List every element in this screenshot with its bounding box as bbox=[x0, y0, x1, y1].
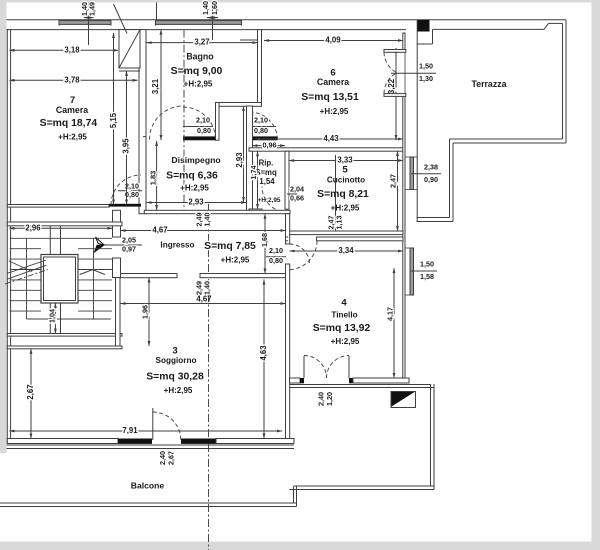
dim line bagno door bbox=[183, 126, 213, 128]
stair landing line bottom bbox=[27, 318, 111, 320]
dim 4,63 vertical bbox=[263, 280, 265, 439]
wire terrace strip outer right bbox=[452, 143, 454, 222]
door arc bagno left half bbox=[150, 106, 184, 140]
door leaf tinello right bbox=[348, 356, 350, 378]
svg-text:S=mq: S=mq bbox=[255, 168, 277, 177]
wall soggiorno bottom west bbox=[7, 439, 118, 444]
svg-text:5: 5 bbox=[342, 165, 348, 176]
svg-text:3,21: 3,21 bbox=[151, 78, 160, 94]
svg-text:+H:2,95: +H:2,95 bbox=[320, 107, 349, 116]
wall stub bagno bottom left bbox=[143, 136, 147, 138]
wall camera6-cucinotto-rip bottom band bbox=[249, 148, 403, 151]
svg-text:Soggiorno: Soggiorno bbox=[156, 356, 197, 365]
svg-text:Balcone: Balcone bbox=[131, 481, 165, 491]
wall tinello top bbox=[317, 237, 404, 241]
svg-text:1,50: 1,50 bbox=[420, 260, 434, 269]
dim 3,21 vertical bbox=[160, 30, 162, 140]
svg-text:4: 4 bbox=[341, 298, 347, 309]
svg-text:2,10: 2,10 bbox=[269, 246, 283, 255]
dim 3,78 bbox=[10, 79, 138, 81]
svg-text:S=mq 18,74: S=mq 18,74 bbox=[40, 118, 98, 129]
wire balcone inner line 2 bbox=[7, 448, 295, 450]
svg-text:1,60: 1,60 bbox=[210, 1, 219, 15]
wire terrace outer right edge bbox=[565, 20, 567, 143]
centerline bagno-disimpegno bbox=[183, 30, 185, 211]
wire terrace outer bottom bbox=[453, 142, 566, 144]
wall east camera6 upper bbox=[403, 33, 405, 50]
wall east soggiorno-tinello bbox=[286, 264, 290, 439]
dim 4,67 top bbox=[121, 230, 286, 232]
wall soggiorno top band bbox=[7, 346, 122, 349]
svg-text:3,34: 3,34 bbox=[338, 246, 354, 255]
centerline vertical main bbox=[208, 204, 210, 550]
svg-text:0,80: 0,80 bbox=[125, 190, 139, 199]
wall rip/cucinotto right upper bbox=[285, 151, 289, 209]
wall tinello bottom left stub bbox=[290, 378, 301, 383]
dim 3,27 bbox=[147, 42, 258, 44]
svg-text:2,67: 2,67 bbox=[26, 384, 35, 399]
stair handrail left bbox=[26, 238, 28, 319]
svg-text:1,83: 1,83 bbox=[148, 171, 157, 185]
elevator shaft bbox=[41, 255, 78, 304]
svg-text:7,91: 7,91 bbox=[122, 426, 138, 435]
stair direction chevron bbox=[80, 270, 105, 275]
door arc tinello left bbox=[304, 356, 327, 379]
dim line terrace door bbox=[391, 72, 436, 74]
svg-text:3,27: 3,27 bbox=[194, 38, 209, 47]
dim 3,34 bbox=[290, 250, 404, 252]
svg-text:Terrazza: Terrazza bbox=[471, 79, 506, 89]
svg-text:Ingresso: Ingresso bbox=[160, 240, 194, 249]
wire balcone top edge inner bbox=[290, 384, 431, 386]
door arc terrace upper bbox=[384, 52, 397, 72]
svg-text:0,97: 0,97 bbox=[122, 245, 136, 254]
wall threshold line terrace door bbox=[404, 50, 406, 95]
dim ext line window W2 left bbox=[156, 3, 158, 20]
svg-text:4,67: 4,67 bbox=[152, 226, 167, 235]
svg-text:1,96: 1,96 bbox=[140, 305, 149, 319]
dim 4,67 bottom bbox=[121, 303, 286, 305]
svg-text:1,04: 1,04 bbox=[47, 309, 56, 323]
left gray strip bbox=[0, 0, 7, 453]
svg-text:Bagno: Bagno bbox=[186, 51, 214, 61]
stair landing line top bbox=[10, 237, 112, 239]
svg-text:0,80: 0,80 bbox=[197, 126, 211, 135]
wall bagno jog line bbox=[240, 39, 262, 41]
dim 5,15 vertical bbox=[113, 33, 115, 205]
svg-text:1,13: 1,13 bbox=[334, 216, 343, 230]
svg-text:0,66: 0,66 bbox=[290, 193, 304, 202]
dim 1,68 vertical bbox=[264, 214, 266, 274]
svg-text:+H:2,95: +H:2,95 bbox=[331, 337, 360, 346]
svg-text:1,40: 1,40 bbox=[201, 1, 210, 15]
entrance arrow black bbox=[96, 237, 105, 245]
door arc terrace lower bbox=[384, 73, 397, 94]
pillar box bbox=[391, 392, 416, 408]
dim 1,04 vertical bbox=[54, 303, 56, 334]
svg-text:4,63: 4,63 bbox=[259, 345, 268, 361]
svg-text:2,05: 2,05 bbox=[122, 236, 136, 245]
wire terrace inner top right bbox=[549, 22, 563, 24]
stair central wall left upper bbox=[49, 226, 51, 255]
svg-text:+H:2,95: +H:2,95 bbox=[180, 184, 209, 193]
wall ingresso west lower bbox=[113, 258, 121, 278]
wire balcone step inner bbox=[293, 487, 295, 504]
svg-text:1,74: 1,74 bbox=[249, 166, 258, 180]
dim line ingresso east door bbox=[266, 256, 286, 258]
svg-text:1,58: 1,58 bbox=[420, 272, 434, 281]
dim 2,67 vertical bbox=[30, 349, 32, 439]
door leaf terrace upper bbox=[384, 50, 406, 53]
bottom gray strip bbox=[0, 542, 592, 550]
dim 1,74 vertical bbox=[257, 151, 259, 209]
jamb tinello door right bbox=[349, 378, 353, 383]
wall cucinotto bottom bbox=[289, 231, 403, 235]
svg-text:1,40: 1,40 bbox=[202, 281, 211, 295]
stair treads right flight bbox=[78, 248, 112, 250]
dim 3,95 vertical bbox=[126, 71, 128, 205]
door arc ingresso-tinello bbox=[290, 244, 310, 264]
svg-text:4,09: 4,09 bbox=[325, 36, 341, 45]
dim 2,93 horizontal bbox=[147, 202, 247, 204]
ticks window W2 dim bbox=[207, 17, 218, 19]
svg-text:3,18: 3,18 bbox=[64, 45, 80, 54]
wall stairs bottom bbox=[7, 334, 122, 337]
svg-text:2,10: 2,10 bbox=[196, 116, 210, 125]
wall disimpegno/rip vertical bbox=[247, 106, 253, 213]
dim line stairs door bbox=[104, 244, 142, 246]
top gray strip bbox=[0, 0, 600, 3]
svg-text:Camera: Camera bbox=[56, 105, 88, 115]
svg-text:S=mq 7,85: S=mq 7,85 bbox=[204, 241, 256, 252]
right gray strip bbox=[592, 0, 600, 550]
stair break diagonal bbox=[7, 265, 46, 279]
wire terrace inner bottom bbox=[450, 138, 563, 140]
door leaf terrace lower bbox=[384, 94, 406, 97]
wire terrace inner top line bbox=[433, 28, 545, 30]
wire balcone right edge outer bbox=[433, 384, 435, 490]
door arc camera6 entry bbox=[250, 112, 278, 140]
door leaf tinello left bbox=[303, 356, 305, 378]
window cucinotto east bbox=[410, 157, 414, 190]
stair central wall right upper bbox=[60, 226, 62, 255]
shaft flue camera7 bbox=[119, 30, 140, 68]
svg-text:2,38: 2,38 bbox=[424, 162, 438, 171]
wire terrace chamfer bbox=[544, 23, 549, 29]
wall camera7 bottom bbox=[7, 205, 109, 208]
svg-text:+H:2,95: +H:2,95 bbox=[184, 80, 213, 89]
wall bagno notch horizontal bbox=[216, 103, 262, 107]
wall tinello bottom right bbox=[353, 378, 409, 383]
door arc bagno right half bbox=[183, 107, 216, 140]
stair handrail right bbox=[93, 238, 95, 319]
dim line camera6 door bbox=[247, 126, 276, 128]
shaft bottom lip bbox=[119, 70, 140, 72]
svg-text:+H:2,95: +H:2,95 bbox=[58, 132, 87, 141]
door arc cucinotto-tinello bbox=[288, 241, 317, 270]
wire balcone bottom inner bbox=[0, 506, 297, 508]
svg-text:4,17: 4,17 bbox=[385, 307, 394, 321]
svg-text:2,04: 2,04 bbox=[290, 184, 304, 193]
wall black corner terrace pillar bbox=[418, 20, 430, 32]
wall soggiorno bottom east bbox=[216, 439, 294, 444]
svg-text:4,67: 4,67 bbox=[196, 295, 211, 304]
svg-text:+H:2,95: +H:2,95 bbox=[164, 386, 193, 395]
wall rip bottom left stub bbox=[249, 209, 262, 213]
window tinello east bbox=[410, 248, 414, 295]
dim 4,17 vertical bbox=[393, 268, 395, 378]
svg-text:S=mq 30,28: S=mq 30,28 bbox=[146, 371, 204, 382]
dim 4,09 bbox=[264, 40, 403, 42]
door leaf soggiorno bbox=[152, 408, 154, 440]
wall black bar bagno door bbox=[183, 136, 216, 140]
wall ingresso bottom left bbox=[121, 274, 178, 278]
dim 7,91 bbox=[10, 430, 283, 432]
svg-text:Disimpegno: Disimpegno bbox=[171, 155, 220, 165]
wall ingresso east upper bbox=[286, 214, 290, 244]
svg-text:S=mq 8,21: S=mq 8,21 bbox=[317, 189, 369, 200]
svg-text:+H:2,95: +H:2,95 bbox=[221, 256, 250, 265]
wall ingresso bottom right bbox=[200, 274, 286, 278]
dim 3,33 bbox=[289, 160, 403, 162]
svg-text:3,78: 3,78 bbox=[64, 75, 80, 84]
svg-text:2,10: 2,10 bbox=[254, 116, 268, 125]
wire balcone top edge outer bbox=[290, 387, 435, 389]
wire balcone right-part bottom outer bbox=[290, 489, 435, 491]
dim line cucinotto window bbox=[411, 173, 441, 175]
door arc tinello right bbox=[327, 356, 350, 379]
wall black bar camera6 door bbox=[250, 136, 278, 140]
shaft diagonal bbox=[119, 30, 140, 68]
svg-text:0,80: 0,80 bbox=[269, 256, 283, 265]
dim ext line window W1 bbox=[88, 3, 90, 46]
svg-text:Cucinotto: Cucinotto bbox=[327, 176, 365, 185]
svg-text:2,93: 2,93 bbox=[188, 198, 204, 207]
dim 0,96 bbox=[253, 145, 286, 147]
dim 2,93 vertical bbox=[243, 106, 245, 202]
wall east lower run bbox=[403, 95, 405, 383]
svg-text:0,96: 0,96 bbox=[263, 141, 277, 150]
window W1 camera7 top bbox=[59, 21, 111, 25]
wire outline top balcony line bbox=[7, 19, 567, 21]
wire balcone step outer bbox=[296, 487, 298, 507]
tick cucinotto door bbox=[287, 193, 297, 195]
wire terrace inner right edge bbox=[562, 23, 564, 139]
svg-text:Camera: Camera bbox=[317, 77, 349, 87]
wall ingresso west upper bbox=[113, 210, 121, 237]
wire terrace strip inner right bbox=[449, 139, 451, 218]
door arc rip bbox=[262, 187, 288, 213]
wire balcone bottom outer bbox=[0, 502, 297, 504]
leader line to shaft bbox=[114, 4, 128, 34]
wire balcone inner line 1 bbox=[7, 444, 295, 446]
dim 2,47-1,13 vertical line bbox=[335, 155, 337, 231]
wall stairs top bbox=[7, 222, 122, 226]
svg-text:S=mq 13,51: S=mq 13,51 bbox=[301, 92, 359, 103]
stair central wall right lower bbox=[60, 303, 62, 334]
svg-text:4,43: 4,43 bbox=[323, 134, 339, 143]
svg-text:3,33: 3,33 bbox=[337, 156, 353, 165]
svg-text:S=mq 13,92: S=mq 13,92 bbox=[313, 323, 371, 334]
wire building east face bbox=[416, 20, 418, 222]
svg-text:1,68: 1,68 bbox=[260, 233, 269, 247]
window W2 bagno top bbox=[156, 21, 242, 25]
dim 1,96 vertical bbox=[148, 278, 150, 347]
svg-text:3,95: 3,95 bbox=[122, 138, 131, 154]
svg-text:2,93: 2,93 bbox=[235, 152, 244, 168]
svg-text:2,67: 2,67 bbox=[166, 451, 175, 465]
svg-text:1,30: 1,30 bbox=[419, 74, 433, 83]
dim 1,83 vertical bbox=[156, 141, 158, 210]
door arc camera7 bbox=[111, 175, 141, 205]
ticks window W1 dim bbox=[84, 17, 94, 19]
svg-text:2,47: 2,47 bbox=[388, 174, 397, 188]
stair central wall left lower bbox=[49, 303, 51, 334]
wall bagno right bbox=[258, 30, 262, 106]
svg-text:1,40: 1,40 bbox=[202, 213, 211, 227]
dim 2,47 right vertical bbox=[397, 151, 399, 231]
dim line tinello window bbox=[410, 270, 438, 272]
svg-text:S=mq 9,00: S=mq 9,00 bbox=[171, 66, 223, 77]
dim ext line window W2 bbox=[212, 3, 214, 41]
wall west exterior bbox=[7, 30, 10, 443]
wall top exterior inner face bbox=[7, 29, 407, 31]
svg-text:1,20: 1,20 bbox=[325, 392, 334, 406]
svg-text:1,54: 1,54 bbox=[259, 177, 275, 186]
svg-text:+H:2,95: +H:2,95 bbox=[258, 197, 281, 204]
wire terrace strip inner bottom bbox=[417, 217, 450, 219]
svg-text:0,90: 0,90 bbox=[424, 175, 438, 184]
svg-text:1,49: 1,49 bbox=[87, 2, 96, 16]
svg-text:2,96: 2,96 bbox=[25, 223, 41, 232]
dim 3,22 vertical bbox=[395, 48, 397, 140]
svg-text:Tinello: Tinello bbox=[331, 311, 357, 320]
door threshold camera7 black bar bbox=[109, 204, 141, 207]
dim line camera7 door bbox=[118, 190, 142, 192]
wire balcone right-part bottom inner bbox=[294, 485, 435, 487]
wall bagno notch vertical bbox=[216, 103, 220, 141]
wall ingresso top bbox=[144, 210, 290, 213]
stair treads left flight bbox=[10, 248, 41, 250]
wire terrace left notch bottom bbox=[417, 43, 433, 45]
dim 3,18 bbox=[10, 49, 119, 51]
wall black bar soggiorno east bbox=[181, 439, 216, 444]
wall black bar soggiorno west bbox=[118, 439, 152, 444]
wall camera7/disimpegno vertical bbox=[139, 30, 146, 214]
svg-text:1,50: 1,50 bbox=[419, 62, 433, 71]
wall stairs east lower bbox=[116, 278, 121, 348]
wire terrace strip outer bottom bbox=[417, 221, 454, 223]
jamb tinello door left bbox=[300, 378, 304, 383]
svg-text:5,15: 5,15 bbox=[109, 112, 118, 128]
svg-text:0,80: 0,80 bbox=[254, 126, 268, 135]
wire balcone right edge inner bbox=[430, 384, 432, 486]
dim 4,43 bbox=[255, 138, 403, 140]
svg-text:Rip.: Rip. bbox=[259, 159, 274, 168]
svg-text:S=mq 6,36: S=mq 6,36 bbox=[166, 170, 218, 181]
wire terrace left notch side bbox=[432, 29, 434, 44]
door arc soggiorno bbox=[153, 412, 181, 440]
dim 2,96 bbox=[10, 227, 113, 229]
